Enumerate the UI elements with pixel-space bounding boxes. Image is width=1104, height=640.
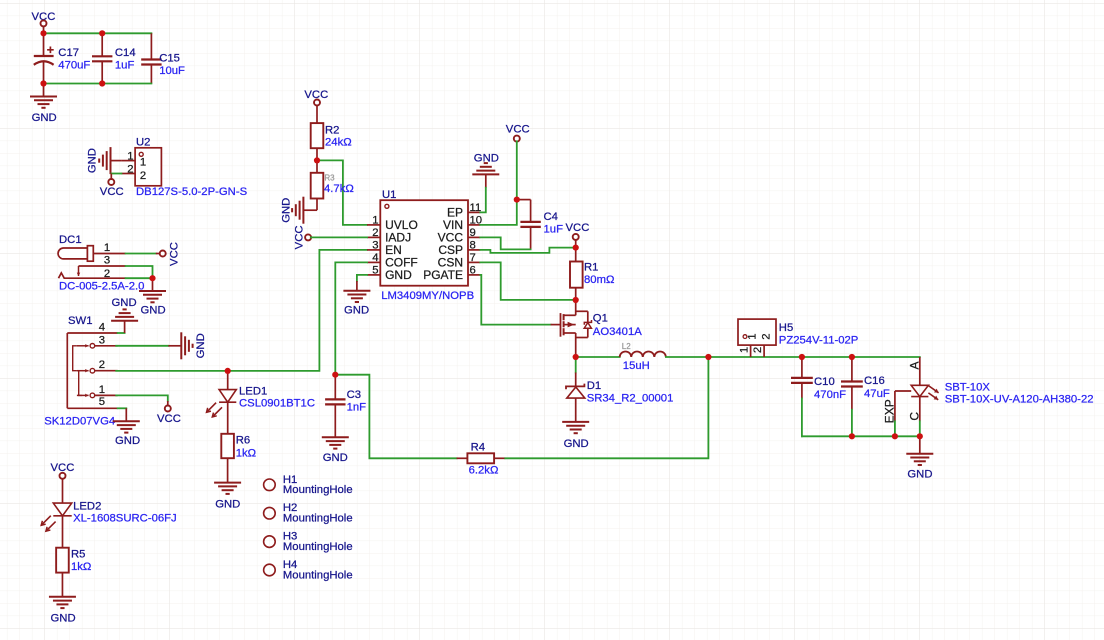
svg-text:LED1: LED1 xyxy=(239,386,267,398)
svg-text:SR34_R2_00001: SR34_R2_00001 xyxy=(587,392,674,404)
svg-text:R3: R3 xyxy=(324,174,335,183)
svg-text:GND: GND xyxy=(564,438,589,450)
led LED1 xyxy=(219,371,236,434)
svg-text:1uF: 1uF xyxy=(544,224,564,236)
pin 1 indicator circle U2 xyxy=(139,152,143,156)
ground GND below C3 xyxy=(322,437,349,448)
svg-text:C10: C10 xyxy=(814,376,835,388)
node junction DC1 ground xyxy=(149,275,155,281)
C4 lower lead xyxy=(530,227,532,250)
svg-text:VCC: VCC xyxy=(100,186,124,198)
pin 7 U1 CSN xyxy=(468,261,480,263)
svg-text:C14: C14 xyxy=(115,47,136,59)
ground GND right of SW1 pin3 xyxy=(168,345,181,347)
svg-text:H5: H5 xyxy=(779,322,793,334)
node junction VCC/C17 xyxy=(40,30,46,36)
svg-text:10uF: 10uF xyxy=(159,65,185,77)
wire output junction to H5/C10/C16/LED xyxy=(708,356,920,358)
svg-text:6.2kΩ: 6.2kΩ xyxy=(469,465,499,477)
svg-text:C15: C15 xyxy=(159,52,180,64)
capacitor C17 xyxy=(34,33,54,83)
wire DC1 pin 2 to junction xyxy=(126,277,153,279)
svg-text:5: 5 xyxy=(372,264,378,276)
ground GND above U1 EP (inverted) xyxy=(485,174,487,187)
svg-text:DC1: DC1 xyxy=(59,234,82,246)
wire DC1 pin 3 to junction xyxy=(126,266,153,278)
node junction R1 bottom / Q1 source / CSN xyxy=(573,297,579,303)
svg-text:VCC: VCC xyxy=(157,413,181,425)
power flag VCC at LED2 xyxy=(51,462,75,474)
wire bottom rail C17-C14-C15 xyxy=(44,83,152,85)
svg-text:A: A xyxy=(908,361,922,369)
node junction LED1 anode xyxy=(225,368,231,374)
wire R3 to GND left xyxy=(303,199,317,211)
wire Q1 drain to L2 xyxy=(576,356,620,358)
led D2 SBT-10X xyxy=(911,357,928,421)
svg-text:2: 2 xyxy=(761,333,773,339)
ground GND (C17 bank) xyxy=(43,84,45,97)
ground GND below SBT LED xyxy=(919,436,921,453)
node junction Q1 drain / D1 / L2 xyxy=(573,354,579,360)
node junction R2/R3 (UVLO) xyxy=(314,157,320,163)
node junction C4 tap xyxy=(514,197,520,203)
svg-text:SBT-10X-UV-A120-AH380-22: SBT-10X-UV-A120-AH380-22 xyxy=(945,394,1094,406)
svg-text:VCC: VCC xyxy=(169,242,181,266)
svg-text:VCC: VCC xyxy=(294,225,306,249)
svg-text:2: 2 xyxy=(372,227,378,239)
svg-text:1kΩ: 1kΩ xyxy=(236,448,256,460)
capacitor C3 xyxy=(334,375,336,400)
svg-text:C16: C16 xyxy=(864,375,885,387)
svg-text:DC-005-2.5A-2.0: DC-005-2.5A-2.0 xyxy=(59,281,144,293)
svg-text:GND: GND xyxy=(32,112,57,124)
SW1 pole arrow pin2 xyxy=(77,370,89,372)
wire EXP to bottom rail xyxy=(894,421,896,436)
ground GND below U1 pin5 xyxy=(356,281,358,291)
power flag VCC at U1 IADJ xyxy=(305,234,311,240)
svg-text:U2: U2 xyxy=(136,137,150,149)
svg-text:C: C xyxy=(908,412,922,421)
svg-text:LED2: LED2 xyxy=(73,501,101,513)
ground GND at U2 pin 1 xyxy=(111,160,122,162)
wire C3 node to R4 xyxy=(335,375,456,459)
svg-text:GND: GND xyxy=(385,268,412,282)
wire U2 pin 2 to VCC xyxy=(111,173,121,175)
svg-text:1: 1 xyxy=(127,151,133,163)
svg-text:U1: U1 xyxy=(382,189,396,201)
svg-text:XL-1608SURC-06FJ: XL-1608SURC-06FJ xyxy=(73,513,177,525)
svg-text:PZ254V-11-02P: PZ254V-11-02P xyxy=(779,335,859,347)
svg-text:1: 1 xyxy=(99,384,105,396)
LED EXP pad connection xyxy=(895,391,911,421)
svg-text:GND: GND xyxy=(474,153,499,165)
power flag VCC above R2 xyxy=(304,89,328,101)
SW1 pole arrow pin1 xyxy=(77,394,89,396)
wire IADJ to VCC flag xyxy=(311,236,367,238)
svg-text:DB127S-5.0-2P-GN-S: DB127S-5.0-2P-GN-S xyxy=(136,186,248,198)
svg-text:GND: GND xyxy=(112,297,137,309)
svg-text:8: 8 xyxy=(470,239,476,251)
svg-text:R4: R4 xyxy=(471,442,485,454)
svg-text:2: 2 xyxy=(99,359,105,371)
svg-text:2: 2 xyxy=(104,268,110,280)
pin 2 DC1 with spring contact xyxy=(59,273,126,278)
svg-text:GND: GND xyxy=(215,498,240,510)
svg-text:C4: C4 xyxy=(544,211,558,223)
wire UVLO node to U1 pin 1 xyxy=(317,160,367,225)
node junction C17 bottom xyxy=(40,80,46,86)
wire VCC stem to top rail xyxy=(43,26,45,33)
svg-text:1uF: 1uF xyxy=(115,60,135,72)
svg-text:4.7kΩ: 4.7kΩ xyxy=(324,183,354,195)
svg-text:GND: GND xyxy=(323,452,348,464)
wire VCC down to VIN xyxy=(480,141,517,225)
connector DC1 barrel jack xyxy=(58,246,93,262)
svg-text:GND: GND xyxy=(344,305,369,317)
capacitor C4 xyxy=(517,200,531,222)
inductor L2 xyxy=(620,352,666,357)
svg-text:Q1: Q1 xyxy=(593,312,608,324)
LED2 emission arrows xyxy=(41,516,55,532)
wire SW1 pin 4 to GND above xyxy=(118,332,125,334)
connector H5 xyxy=(738,319,776,345)
pin 6 U1 PGATE xyxy=(468,274,480,276)
svg-text:PGATE: PGATE xyxy=(423,268,463,282)
wire VCC flag to R1 node xyxy=(575,240,577,248)
DC1 internal switch arrow xyxy=(78,266,80,276)
wire COFF to C3 xyxy=(335,262,367,374)
svg-text:4: 4 xyxy=(99,322,105,334)
resistor R4 xyxy=(457,457,468,459)
node junction C16 bottom xyxy=(849,433,855,439)
svg-text:R2: R2 xyxy=(325,125,339,137)
svg-text:R6: R6 xyxy=(236,434,250,446)
pin 2 U2 xyxy=(121,173,135,175)
power flag VCC at SW1 xyxy=(165,406,171,412)
pin 5 U1 GND xyxy=(367,274,380,276)
svg-text:470nF: 470nF xyxy=(814,389,846,401)
svg-text:SK12D07VG4: SK12D07VG4 xyxy=(44,415,115,427)
pin 1 U2 xyxy=(121,160,135,162)
wire U1 GND pin to ground xyxy=(357,275,367,281)
ground GND above SW1 pin4 xyxy=(124,321,126,333)
pin 4 U1 COFF xyxy=(367,261,380,263)
pin 1 indicator circle U1 xyxy=(385,204,389,208)
node junction C10 top xyxy=(799,354,805,360)
wire U1 CSP pin to R1 top xyxy=(480,248,573,253)
svg-text:2: 2 xyxy=(140,170,146,182)
svg-text:5: 5 xyxy=(99,396,105,408)
svg-text:470uF: 470uF xyxy=(58,60,90,72)
wire L2 to output junction xyxy=(666,356,708,358)
svg-text:1nF: 1nF xyxy=(347,401,367,413)
svg-text:47uF: 47uF xyxy=(864,388,890,400)
power flag VCC above R1 xyxy=(566,222,590,234)
svg-text:2: 2 xyxy=(752,347,764,353)
resistor R3 xyxy=(311,173,324,199)
svg-text:VCC: VCC xyxy=(566,222,590,234)
op-amp U1 LM3409 body xyxy=(380,200,468,286)
svg-text:1: 1 xyxy=(104,242,110,254)
svg-text:3: 3 xyxy=(99,334,105,346)
wire bottom rail C10-LED xyxy=(802,435,920,437)
capacitor C10 xyxy=(801,357,803,378)
wire U1 PGATE pin to Q1 gate xyxy=(480,275,550,325)
svg-text:6: 6 xyxy=(470,264,476,276)
pin 1 DC1 xyxy=(93,253,125,255)
svg-text:MountingHole: MountingHole xyxy=(283,541,353,553)
C16 lower lead xyxy=(851,387,853,410)
power flag VCC at DC1 xyxy=(156,253,160,255)
svg-text:L2: L2 xyxy=(622,342,631,351)
svg-text:D1: D1 xyxy=(587,380,601,392)
svg-text:24kΩ: 24kΩ xyxy=(325,137,352,149)
ground GND at DC1 xyxy=(152,278,154,291)
pin 8 U1 CSP xyxy=(468,249,480,251)
switch SW1 body xyxy=(67,333,117,408)
capacitor C14 xyxy=(92,33,112,83)
pin 1 indicator circle H5 xyxy=(743,335,747,339)
svg-text:MountingHole: MountingHole xyxy=(283,569,353,581)
ground GND left of R3 xyxy=(292,197,303,224)
R4 right lead xyxy=(494,457,505,459)
connector U2 xyxy=(135,148,161,186)
pin 2 H5 xyxy=(763,345,765,357)
svg-text:C3: C3 xyxy=(347,389,361,401)
pin 11 U1 EP xyxy=(468,211,480,213)
wire DC1 pin1 to VCC xyxy=(126,253,156,255)
wire R2 to R3 xyxy=(316,148,318,173)
wire U1 CSN pin to R1 bottom xyxy=(480,262,573,300)
svg-text:1: 1 xyxy=(739,347,751,353)
svg-text:1: 1 xyxy=(747,333,759,339)
svg-text:15uH: 15uH xyxy=(623,360,650,372)
node junction C14 top xyxy=(99,30,105,36)
wire SW1 pin 1 to VCC xyxy=(116,395,168,401)
C3 lower lead xyxy=(334,404,336,437)
wire SW1 pin 3 to GND right xyxy=(116,345,168,347)
svg-text:1kΩ: 1kΩ xyxy=(71,561,91,573)
pin 3 U1 EN xyxy=(367,249,380,251)
mounting hole H3 xyxy=(264,536,276,548)
svg-text:CSL0901BT1C: CSL0901BT1C xyxy=(239,398,315,410)
svg-text:2: 2 xyxy=(127,163,133,175)
svg-text:4: 4 xyxy=(372,252,378,264)
node junction LED cathode bottom xyxy=(917,433,923,439)
pin 1 U1 UVLO xyxy=(367,224,380,226)
svg-text:EXP: EXP xyxy=(883,399,897,423)
svg-text:GND: GND xyxy=(195,333,207,358)
svg-text:GND: GND xyxy=(51,613,76,625)
svg-text:1: 1 xyxy=(140,157,146,169)
svg-text:GND: GND xyxy=(281,198,293,223)
svg-text:MountingHole: MountingHole xyxy=(283,513,353,525)
node junction EXP bottom xyxy=(892,433,898,439)
wire C16 to bottom rail xyxy=(851,410,853,437)
power flag VCC at U2 xyxy=(108,179,114,185)
svg-text:AO3401A: AO3401A xyxy=(593,326,642,338)
svg-text:MountingHole: MountingHole xyxy=(283,484,353,496)
capacitor C16 xyxy=(851,357,853,382)
ground GND below SW1 pin5 xyxy=(125,408,127,421)
ground GND below R6 xyxy=(227,458,229,482)
svg-text:7: 7 xyxy=(470,252,476,264)
SW1 linkage pin3-pin2 xyxy=(73,346,77,371)
resistor R5 xyxy=(56,548,69,573)
svg-text:1: 1 xyxy=(372,214,378,226)
power flag VCC (C17 bank) xyxy=(32,11,56,23)
resistor R6 xyxy=(221,434,234,458)
LED1 emission arrows xyxy=(207,403,223,417)
SW1 pole arrow pin3 xyxy=(77,345,89,347)
svg-text:3: 3 xyxy=(104,255,110,267)
svg-text:3: 3 xyxy=(372,239,378,251)
SW1 linkage pin2-pin1 xyxy=(79,371,82,396)
mounting hole H2 xyxy=(264,507,276,519)
mounting hole H4 xyxy=(264,564,276,576)
capacitor C15 xyxy=(141,33,161,83)
node junction C3 / COFF xyxy=(332,372,338,378)
wire SW1 pin 2 to U1 EN (net EN) xyxy=(116,250,367,371)
node junction C16 top xyxy=(849,354,855,360)
power flag VCC above C4 xyxy=(506,123,530,135)
wire R4 to output node xyxy=(505,357,708,458)
wire U1 VCC pin to C4 xyxy=(480,237,530,249)
svg-text:SBT-10X: SBT-10X xyxy=(945,381,991,393)
wire EP pin to ground above xyxy=(480,188,486,213)
pin 9 U1 VCC xyxy=(468,236,480,238)
resistor R1 xyxy=(575,248,577,262)
svg-text:LM3409MY/NOPB: LM3409MY/NOPB xyxy=(381,290,474,302)
node junction R1 top / CSP xyxy=(573,245,579,251)
pin 1 H5 xyxy=(750,345,752,357)
resistor R2 xyxy=(316,105,318,123)
C10 lower lead xyxy=(801,383,803,399)
svg-text:GND: GND xyxy=(115,435,140,447)
pin 10 U1 VIN xyxy=(468,224,480,226)
svg-text:GND: GND xyxy=(87,148,99,173)
R1 bottom lead xyxy=(575,288,577,300)
pin 2 U1 IADJ xyxy=(367,236,380,238)
svg-text:C17: C17 xyxy=(58,47,79,59)
wire C10 to bottom rail xyxy=(801,399,803,437)
diode D1 SR34 xyxy=(566,357,585,422)
svg-text:VCC: VCC xyxy=(506,123,530,135)
wire top rail C17-C14-C15 xyxy=(44,32,152,34)
wire SW1 pin 5 to GND below xyxy=(118,407,127,409)
node junction C14 bottom xyxy=(99,80,105,86)
pin 3 DC1 with switch contact xyxy=(79,265,126,267)
ground GND below R5 xyxy=(61,573,63,597)
transistor Q1 AO3401A xyxy=(551,300,592,357)
svg-text:GND: GND xyxy=(141,305,166,317)
svg-text:SW1: SW1 xyxy=(68,315,92,327)
svg-text:GND: GND xyxy=(907,469,932,481)
led LED2 xyxy=(53,479,71,548)
LED SBT emission arrows xyxy=(928,386,938,400)
svg-text:80mΩ: 80mΩ xyxy=(584,274,614,286)
svg-text:9: 9 xyxy=(470,227,476,239)
ground GND below D1 xyxy=(562,422,589,433)
node junction L2 output xyxy=(705,354,711,360)
wire output rail to LED anode xyxy=(919,356,921,358)
svg-text:R1: R1 xyxy=(584,262,598,274)
mounting hole H1 xyxy=(264,479,276,491)
svg-text:R5: R5 xyxy=(71,548,85,560)
